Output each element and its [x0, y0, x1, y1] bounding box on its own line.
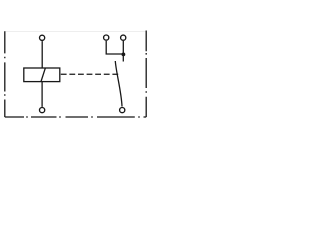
enclosure border bottom (dash-dot)	[5, 116, 146, 118]
contact terminal circle left (NO)	[104, 35, 109, 40]
mechanical link dashed line from coil to contact blade	[61, 73, 119, 75]
coil top terminal circle	[40, 35, 45, 40]
enclosure border left (dash-dot)	[4, 31, 6, 117]
wire from right contact terminal down to junction	[122, 41, 124, 54]
movable contact blade	[115, 61, 122, 107]
enclosure border right (dash-dot)	[145, 31, 147, 118]
relay coil K1 box	[24, 68, 60, 82]
contact terminal circle right	[121, 35, 126, 40]
coil diagonal slash	[41, 68, 45, 81]
junction dot	[122, 53, 126, 57]
coil bottom terminal circle	[40, 108, 45, 113]
enclosure border top (faint chain line)	[5, 31, 146, 33]
wire from coil box to coil bottom terminal	[41, 82, 43, 107]
wire from left contact terminal down and right to junction	[106, 41, 123, 54]
fixed contact stub below junction	[122, 54, 124, 61]
contact common bottom terminal circle	[120, 108, 125, 113]
wire from coil top terminal to coil box	[41, 41, 43, 68]
